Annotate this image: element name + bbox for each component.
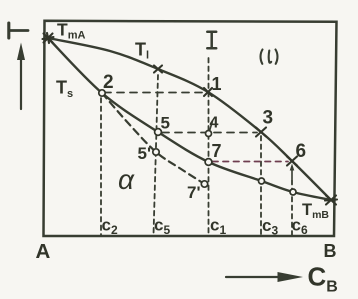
svg-text:5': 5' bbox=[138, 144, 152, 163]
svg-text:4: 4 bbox=[210, 115, 219, 132]
svg-text:A: A bbox=[36, 240, 51, 263]
svg-text:6: 6 bbox=[296, 141, 307, 162]
svg-text:α: α bbox=[118, 164, 135, 195]
svg-text:2: 2 bbox=[103, 72, 114, 93]
svg-text:7: 7 bbox=[212, 141, 222, 161]
svg-text:3: 3 bbox=[263, 108, 274, 129]
svg-text:7': 7' bbox=[187, 183, 201, 202]
svg-text:1: 1 bbox=[212, 74, 222, 94]
svg-text:B: B bbox=[324, 241, 337, 261]
svg-text:5: 5 bbox=[161, 114, 170, 133]
